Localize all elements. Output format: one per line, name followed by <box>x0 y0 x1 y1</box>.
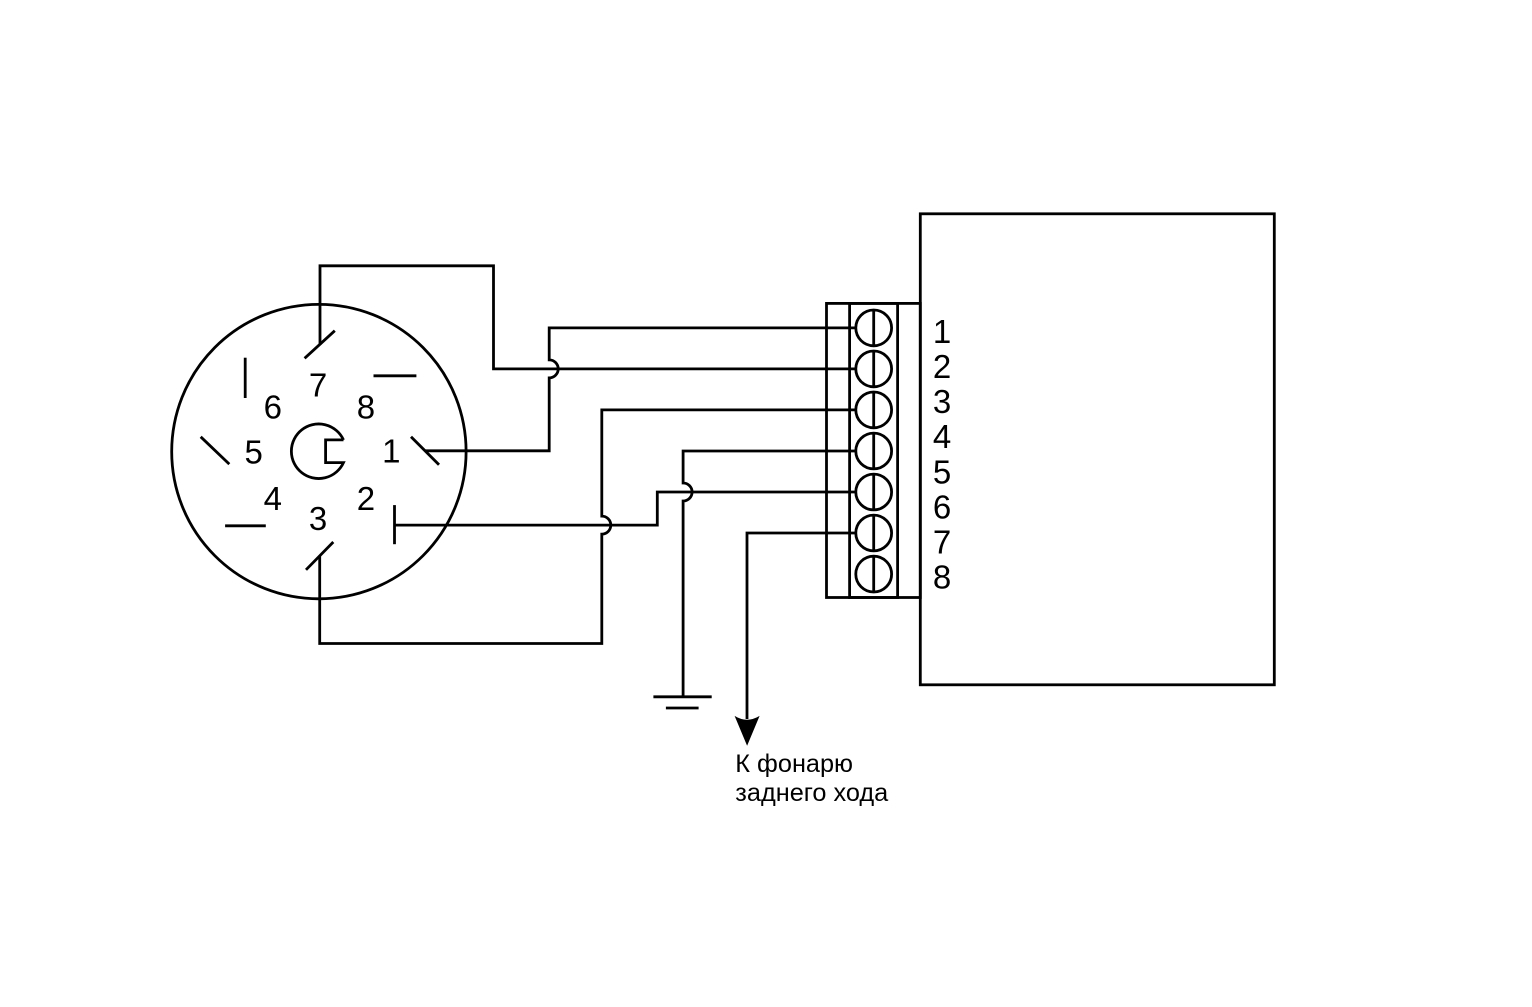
pin 3 <box>306 542 333 570</box>
svg-text:8: 8 <box>933 559 951 596</box>
pin 8 <box>374 374 417 377</box>
svg-text:6: 6 <box>933 488 951 525</box>
ground bar 1 <box>653 695 711 698</box>
terminal block inner frame <box>850 303 898 597</box>
terminal screw 1 <box>856 310 892 346</box>
svg-text:заднего хода: заднего хода <box>735 779 889 807</box>
connector keyway <box>291 424 343 479</box>
terminal screw 7 <box>856 556 892 592</box>
svg-text:2: 2 <box>357 480 375 517</box>
terminal block outer frame <box>827 303 921 597</box>
pin 1 <box>411 437 439 465</box>
pin 2 <box>393 505 396 544</box>
svg-text:1: 1 <box>933 313 951 350</box>
svg-text:2: 2 <box>933 348 951 385</box>
wire pin7 to terminal 2 <box>320 266 856 369</box>
wire terminal 4 to ground (hop over wire at y=492) <box>683 451 856 696</box>
ground bar 2 <box>666 707 699 710</box>
svg-text:7: 7 <box>933 524 951 561</box>
svg-text:7: 7 <box>309 367 327 404</box>
svg-text:К фонарю: К фонарю <box>735 750 853 778</box>
pin 4 <box>225 524 266 527</box>
connector XP1 body <box>172 304 466 598</box>
terminal screw 5 <box>856 474 892 510</box>
svg-text:1: 1 <box>382 432 400 469</box>
control unit box <box>920 214 1274 685</box>
svg-text:6: 6 <box>264 389 282 426</box>
pin 5 <box>201 437 230 464</box>
wire pin2 to terminal 5 <box>395 492 856 525</box>
terminal screw 6 <box>856 515 892 551</box>
wire terminal 6 to reversing-light arrow <box>747 533 856 719</box>
svg-text:5: 5 <box>245 433 263 470</box>
wire pin3 to terminal 3 (hop over wire at y=525.1) <box>320 410 856 644</box>
svg-text:4: 4 <box>933 418 951 455</box>
svg-text:3: 3 <box>933 383 951 420</box>
pin 6 <box>244 358 247 398</box>
terminal screw 4 <box>856 433 892 469</box>
pin 7 <box>305 331 335 359</box>
terminal screw 2 <box>856 351 892 387</box>
arrowhead to reversing light <box>735 716 760 746</box>
wire pin1 to terminal 1 (hop over wire at y=368.9) <box>425 328 855 451</box>
svg-text:4: 4 <box>264 480 282 517</box>
svg-text:5: 5 <box>933 453 951 490</box>
svg-text:8: 8 <box>357 389 375 426</box>
terminal screw 3 <box>856 392 892 428</box>
svg-text:3: 3 <box>309 500 327 537</box>
